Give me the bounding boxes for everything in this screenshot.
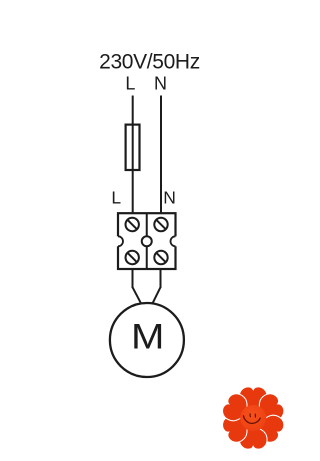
flower mouth xyxy=(244,416,261,424)
petal upper-right xyxy=(254,390,288,425)
wire L inside fuse xyxy=(132,125,134,170)
screw top-left xyxy=(126,218,139,231)
petal lower-left xyxy=(219,410,253,445)
motor M1 circle xyxy=(110,303,184,377)
flower eye right xyxy=(254,414,256,417)
terminal block divider xyxy=(146,213,148,269)
flower eye left xyxy=(249,414,251,417)
svg-text:L: L xyxy=(111,188,121,208)
svg-text:230V/50Hz: 230V/50Hz xyxy=(99,51,200,74)
svg-text:N: N xyxy=(163,188,176,208)
svg-text:L: L xyxy=(125,74,135,94)
terminal notch right xyxy=(171,236,177,246)
wire N vertical xyxy=(160,96,162,214)
flower face disc xyxy=(240,405,266,431)
fuse F1 xyxy=(126,125,140,170)
screw bottom-right xyxy=(154,251,167,264)
svg-text:N: N xyxy=(154,74,167,94)
wire L vertical xyxy=(132,96,134,214)
wire funnel right xyxy=(153,287,161,303)
wire stub left below block xyxy=(132,269,134,288)
flower logo xyxy=(219,387,287,449)
petal upper-left xyxy=(219,390,253,425)
petal bottom xyxy=(239,427,267,450)
wire funnel left xyxy=(133,287,141,303)
screw top-right xyxy=(154,218,167,231)
wire stub right below block xyxy=(160,269,162,288)
terminal block X1 outline xyxy=(118,213,176,269)
terminal notch left xyxy=(117,236,124,246)
terminal center hole xyxy=(142,236,152,246)
petal lower-right xyxy=(254,410,288,445)
petal top xyxy=(239,387,267,410)
svg-text:M: M xyxy=(131,317,164,357)
screw bottom-left xyxy=(126,251,139,264)
